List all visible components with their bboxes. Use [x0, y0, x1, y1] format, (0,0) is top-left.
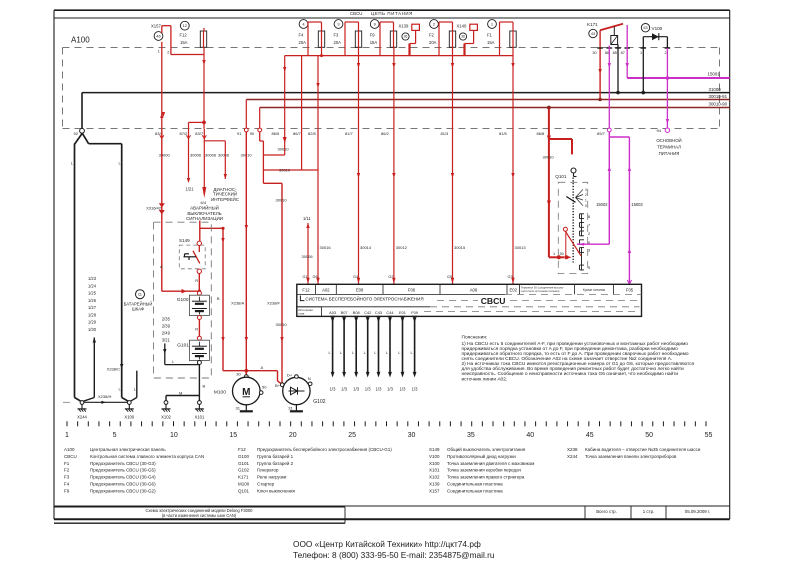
svg-text:0: 0 [585, 204, 587, 208]
svg-text:F09: F09 [411, 310, 418, 315]
svg-text:1/3: 1/3 [330, 387, 336, 392]
svg-text:X139: X139 [429, 482, 440, 487]
svg-text:Предохранитель CBCU (30-G3): Предохранитель CBCU (30-G3) [90, 461, 156, 466]
svg-text:83/7: 83/7 [195, 131, 204, 136]
svg-text:Стартер: Стартер [257, 482, 275, 487]
svg-text:E02: E02 [509, 288, 517, 293]
svg-text:94: 94 [657, 128, 662, 133]
svg-text:15A: 15A [180, 40, 188, 45]
svg-text:L: L [410, 351, 412, 355]
svg-text:Q101: Q101 [555, 174, 567, 179]
svg-text:Общий выключатель электропитан: Общий выключатель электропитания [447, 446, 526, 452]
svg-text:50: 50 [645, 432, 653, 439]
svg-text:L: L [386, 351, 388, 355]
svg-text:31000: 31000 [709, 87, 722, 92]
svg-text:3: 3 [585, 188, 587, 192]
svg-text:5: 5 [113, 432, 117, 439]
svg-text:Соединительная пластина: Соединительная пластина [447, 482, 503, 487]
svg-text:81/5: 81/5 [499, 131, 508, 136]
svg-text:X101: X101 [429, 468, 440, 473]
svg-text:Q101: Q101 [238, 488, 250, 493]
svg-text:1/27: 1/27 [88, 305, 97, 310]
svg-text:20: 20 [289, 432, 297, 439]
svg-text:L: L [374, 351, 376, 355]
svg-text:G102: G102 [313, 399, 325, 405]
svg-text:Реле нагрузки: Реле нагрузки [257, 475, 287, 480]
svg-text:15: 15 [229, 432, 237, 439]
svg-text:G100: G100 [177, 297, 189, 303]
svg-text:N: N [308, 376, 311, 381]
svg-text:Группа батарей 2: Группа батарей 2 [257, 460, 294, 466]
svg-text:1/3: 1/3 [365, 387, 371, 392]
svg-text:2: 2 [167, 50, 169, 54]
svg-text:86: 86 [605, 51, 609, 55]
svg-text:30006: 30006 [190, 153, 202, 158]
svg-text:15001: 15001 [708, 72, 721, 77]
svg-text:X238/F: X238/F [267, 301, 280, 306]
svg-text:F12: F12 [238, 447, 246, 452]
svg-text:30: 30 [560, 252, 564, 256]
svg-text:1/30: 1/30 [88, 327, 97, 332]
svg-text:1/23: 1/23 [88, 276, 97, 281]
svg-text:2/49: 2/49 [162, 330, 171, 335]
svg-text:L: L [364, 351, 366, 355]
svg-text:F2: F2 [64, 468, 70, 473]
svg-text:10: 10 [170, 432, 178, 439]
svg-text:85: 85 [613, 51, 617, 55]
svg-text:S149: S149 [179, 238, 190, 243]
svg-text:30000: 30000 [159, 153, 171, 158]
svg-text:1/24: 1/24 [88, 283, 97, 288]
svg-text:A08: A08 [470, 288, 478, 293]
svg-text:X238/C: X238/C [107, 367, 120, 372]
svg-text:2/35: 2/35 [162, 316, 171, 321]
svg-text:Предохранитель CBCU (30-G4): Предохранитель CBCU (30-G4) [90, 475, 156, 480]
svg-text:X244: X244 [567, 454, 578, 459]
svg-text:B: B [203, 383, 206, 388]
svg-text:1) На CBCU есть 6 соединителей: 1) На CBCU есть 6 соединителей A-F, при … [462, 340, 689, 347]
svg-text:R: R [195, 278, 198, 283]
svg-text:Телефон: 8 (800) 333-95-50 E-: Телефон: 8 (800) 333-95-50 E-mail: 23548… [293, 550, 495, 560]
svg-text:1/28: 1/28 [88, 312, 97, 317]
svg-text:Кабина водителя – отверстие №3: Кабина водителя – отверстие №35 соединит… [585, 447, 701, 452]
svg-text:X102: X102 [161, 414, 171, 419]
svg-text:АВАРИЙНЫЙ: АВАРИЙНЫЙ [190, 203, 219, 210]
svg-text:G102: G102 [238, 468, 250, 473]
svg-text:Всего стр.: Всего стр. [596, 509, 617, 514]
svg-text:5: 5 [588, 265, 590, 270]
svg-text:30010-91: 30010-91 [709, 94, 728, 99]
svg-text:15002: 15002 [596, 202, 608, 207]
svg-text:F12: F12 [302, 288, 310, 293]
svg-text:90: 90 [250, 131, 255, 136]
svg-text:L: L [172, 360, 174, 364]
svg-text:X157: X157 [151, 24, 161, 29]
svg-text:30006: 30006 [302, 254, 314, 259]
svg-text:81/3: 81/3 [441, 131, 450, 136]
svg-text:A: A [160, 264, 163, 269]
svg-text:Генератор: Генератор [257, 468, 279, 473]
svg-text:30: 30 [592, 51, 596, 55]
svg-text:M: M [179, 390, 182, 395]
svg-text:C44: C44 [386, 310, 394, 315]
svg-text:F12: F12 [180, 32, 188, 37]
svg-text:30010: 30010 [276, 198, 288, 203]
svg-text:1/3: 1/3 [400, 387, 406, 392]
svg-text:CBCU: CBCU [350, 11, 362, 16]
svg-text:K171: K171 [587, 22, 598, 27]
svg-text:89/7: 89/7 [597, 131, 606, 136]
svg-text:E01: E01 [399, 310, 406, 315]
svg-text:31: 31 [236, 405, 241, 410]
svg-text:A100: A100 [64, 447, 75, 452]
svg-text:C43: C43 [375, 310, 382, 315]
svg-text:L: L [352, 351, 354, 355]
svg-text:Кроме питания: Кроме питания [583, 288, 605, 292]
svg-text:1: 1 [158, 50, 160, 54]
svg-text:A03: A03 [329, 310, 336, 315]
svg-text:2: 2 [585, 193, 587, 197]
svg-text:Ключ выключения: Ключ выключения [257, 488, 296, 493]
svg-text:6/4: 6/4 [201, 200, 207, 205]
svg-text:43: 43 [591, 32, 595, 36]
svg-text:30006: 30006 [218, 153, 230, 158]
svg-text:3/21: 3/21 [162, 337, 171, 342]
svg-text:1/3: 1/3 [376, 387, 382, 392]
svg-text:F9: F9 [64, 488, 70, 493]
svg-text:ШКАФ: ШКАФ [132, 307, 144, 312]
svg-text:Точка заземления двигателя с м: Точка заземления двигателя с маховиком [447, 461, 534, 466]
svg-text:Точка заземления правого стрин: Точка заземления правого стрингера [447, 475, 525, 480]
svg-text:82/5: 82/5 [308, 131, 317, 136]
svg-text:X140: X140 [457, 24, 467, 29]
svg-text:05.09.2009 г.: 05.09.2009 г. [685, 509, 710, 514]
svg-text:8: 8 [588, 214, 590, 219]
svg-text:1/3: 1/3 [353, 387, 359, 392]
svg-text:30010: 30010 [279, 167, 291, 172]
svg-text:A02: A02 [322, 288, 330, 293]
svg-text:15A: 15A [487, 40, 495, 45]
svg-text:F3: F3 [64, 475, 70, 480]
svg-text:X238/H: X238/H [98, 394, 111, 399]
svg-text:F9: F9 [370, 32, 376, 37]
svg-text:источник линии A02.: источник линии A02. [462, 376, 508, 382]
svg-text:36: 36 [404, 35, 408, 39]
svg-text:C42: C42 [364, 310, 371, 315]
svg-text:Предохранитель CBCU (30-G2): Предохранитель CBCU (30-G2) [90, 488, 156, 493]
svg-text:36: 36 [461, 35, 465, 39]
svg-text:30016: 30016 [320, 245, 332, 250]
svg-text:30010: 30010 [278, 147, 290, 152]
svg-text:15003: 15003 [631, 202, 643, 207]
svg-text:X101: X101 [195, 414, 205, 419]
svg-text:20A: 20A [299, 40, 307, 45]
svg-text:1/25: 1/25 [88, 291, 97, 296]
svg-text:L: L [328, 351, 330, 355]
svg-text:1/21: 1/21 [186, 187, 195, 192]
svg-text:A: A [261, 365, 264, 370]
svg-text:ОСНОВНОЙ: ОСНОВНОЙ [656, 138, 681, 143]
svg-text:30010: 30010 [543, 155, 555, 160]
svg-text:L: L [340, 351, 342, 355]
svg-text:2: 2 [588, 231, 590, 236]
svg-text:V100: V100 [652, 26, 663, 31]
svg-text:(в части изменения системы шин: (в части изменения системы шин CAN) [162, 513, 237, 518]
svg-text:CBCU: CBCU [64, 454, 77, 459]
svg-text:E08: E08 [356, 288, 364, 293]
svg-text:1: 1 [640, 51, 642, 55]
svg-text:F1: F1 [487, 32, 493, 37]
svg-text:1: 1 [585, 199, 587, 203]
svg-text:30010-90: 30010-90 [709, 102, 728, 107]
svg-text:ЦЕПЬ ПИТАНИЯ: ЦЕПЬ ПИТАНИЯ [371, 11, 413, 16]
svg-text:55: 55 [705, 432, 713, 439]
svg-text:СИГНАЛИЗАЦИИ: СИГНАЛИЗАЦИИ [186, 216, 223, 221]
svg-text:G: G [138, 292, 142, 297]
svg-text:30010: 30010 [276, 322, 288, 327]
svg-text:86/7: 86/7 [293, 131, 302, 136]
svg-text:25: 25 [348, 432, 356, 439]
svg-text:30012: 30012 [396, 245, 408, 250]
svg-text:B08: B08 [353, 310, 360, 315]
svg-text:X139: X139 [399, 24, 409, 29]
svg-text:B+: B+ [275, 383, 281, 388]
svg-text:X244: X244 [77, 414, 87, 419]
svg-text:86/2: 86/2 [381, 131, 390, 136]
svg-text:31: 31 [288, 405, 293, 410]
svg-text:неисправность. Сообщение о неи: неисправность. Сообщение о неисправности… [462, 370, 679, 377]
svg-text:V100: V100 [429, 454, 440, 459]
svg-text:ТИЧЕСКИЙ: ТИЧЕСКИЙ [213, 190, 237, 197]
svg-text:30: 30 [236, 371, 241, 376]
svg-text:R: R [195, 327, 198, 332]
svg-text:81/7: 81/7 [345, 131, 354, 136]
svg-text:Контрольная система главного э: Контрольная система главного элемента ко… [90, 454, 204, 459]
svg-text:20A: 20A [334, 40, 342, 45]
svg-text:1/26: 1/26 [88, 298, 97, 303]
svg-text:G101: G101 [238, 461, 250, 466]
svg-text:30013: 30013 [515, 245, 527, 250]
svg-text:X316/42: X316/42 [146, 205, 162, 210]
svg-text:X157: X157 [429, 488, 440, 493]
svg-text:ПИТАНИЯ: ПИТАНИЯ [659, 151, 680, 156]
svg-text:2/39: 2/39 [162, 323, 171, 328]
svg-text:30014: 30014 [360, 245, 372, 250]
svg-text:ВЫКЛЮЧАТЕЛЬ: ВЫКЛЮЧАТЕЛЬ [187, 211, 221, 216]
svg-text:D+: D+ [287, 372, 293, 377]
svg-text:Точка заземления коробки перед: Точка заземления коробки передач [447, 468, 522, 473]
svg-text:СИСТЕМА БЕСПЕРЕБОЙНОГО ЭЛЕКТРО: СИСТЕМА БЕСПЕРЕБОЙНОГО ЭЛЕКТРОСНАБЖЕНИЯ [305, 294, 423, 301]
svg-text:X238: X238 [567, 447, 578, 452]
svg-text:M100: M100 [214, 389, 226, 395]
svg-text:M100: M100 [238, 482, 250, 487]
svg-text:2: 2 [664, 51, 666, 55]
svg-text:ООО «Центр Китайской Техники»: ООО «Центр Китайской Техники» http://цкт… [293, 539, 481, 549]
svg-text:40: 40 [526, 432, 534, 439]
svg-text:тока: тока [298, 312, 304, 316]
svg-text:20A: 20A [429, 40, 437, 45]
svg-text:86/8: 86/8 [537, 131, 546, 136]
svg-text:F05: F05 [626, 288, 634, 293]
svg-text:50: 50 [262, 384, 267, 389]
svg-text:F3: F3 [334, 32, 340, 37]
svg-text:46: 46 [156, 33, 161, 38]
svg-text:F06: F06 [408, 288, 416, 293]
svg-text:B: B [217, 296, 220, 301]
svg-text:Пояснения:: Пояснения: [462, 334, 488, 340]
svg-text:1/3: 1/3 [412, 387, 418, 392]
svg-text:87: 87 [621, 51, 625, 55]
svg-text:CBCU: CBCU [481, 296, 506, 306]
svg-text:1/11: 1/11 [303, 216, 311, 221]
svg-text:Предохранитель CBCU (30-G6): Предохранитель CBCU (30-G6) [90, 482, 156, 487]
svg-text:1: 1 [553, 252, 555, 256]
svg-text:ИНТЕРФЕЙС: ИНТЕРФЕЙС [211, 195, 240, 202]
svg-text:F4: F4 [64, 482, 70, 487]
svg-text:45: 45 [586, 432, 594, 439]
svg-text:L: L [398, 351, 400, 355]
svg-text:Предохранитель бесперебойного: Предохранитель бесперебойного электросна… [257, 446, 392, 452]
svg-text:1: 1 [65, 432, 69, 439]
svg-text:35: 35 [467, 432, 475, 439]
svg-text:Противополярный диод нагрузки: Противополярный диод нагрузки [447, 453, 516, 459]
svg-text:G101: G101 [177, 343, 189, 349]
svg-text:X100: X100 [429, 461, 440, 466]
svg-text:15A: 15A [370, 40, 378, 45]
svg-text:1 стр.: 1 стр. [643, 509, 655, 514]
svg-text:12: 12 [183, 23, 188, 28]
svg-text:Центральная электрическая пане: Центральная электрическая панель [90, 447, 166, 452]
svg-text:F1: F1 [64, 461, 70, 466]
svg-text:3: 3 [588, 248, 590, 253]
svg-text:частотного источника питания): частотного источника питания) [521, 289, 560, 293]
svg-text:63: 63 [643, 26, 647, 30]
svg-text:G100: G100 [238, 454, 250, 459]
svg-text:87/2: 87/2 [180, 131, 189, 136]
svg-text:7: 7 [588, 223, 590, 228]
svg-text:для удобства обслуживания. Во: для удобства обслуживания. Во время пров… [462, 365, 685, 372]
svg-text:92: 92 [74, 131, 79, 136]
svg-text:30015: 30015 [454, 245, 466, 250]
svg-text:F2: F2 [429, 32, 435, 37]
svg-text:Точка заземления панели электр: Точка заземления панели электроприборов [585, 454, 677, 459]
svg-text:1/3: 1/3 [341, 387, 347, 392]
svg-text:S149: S149 [429, 447, 440, 452]
svg-text:A100: A100 [71, 36, 90, 45]
svg-text:1/29: 1/29 [88, 320, 97, 325]
svg-text:Соединительная пластина: Соединительная пластина [447, 488, 503, 493]
svg-text:30: 30 [408, 432, 416, 439]
svg-text:X102: X102 [429, 475, 440, 480]
svg-text:ТЕРМИНАЛ: ТЕРМИНАЛ [657, 145, 681, 150]
svg-text:Группа батарей 1: Группа батарей 1 [257, 453, 294, 459]
svg-text:F4: F4 [299, 32, 305, 37]
svg-text:X238/A: X238/A [231, 301, 244, 306]
svg-text:30006: 30006 [205, 153, 217, 158]
svg-text:K171: K171 [238, 475, 249, 480]
svg-text:91: 91 [237, 131, 242, 136]
svg-text:B07: B07 [341, 310, 348, 315]
svg-text:X100: X100 [124, 414, 134, 419]
svg-text:86/5: 86/5 [272, 131, 281, 136]
svg-text:1/3: 1/3 [387, 387, 393, 392]
svg-text:Предохранитель CBCU (30-G5): Предохранитель CBCU (30-G5) [90, 468, 156, 473]
